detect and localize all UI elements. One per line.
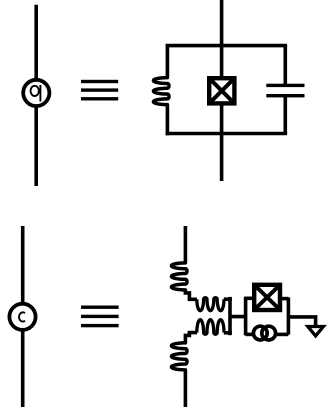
wire bottom lead	[184, 371, 188, 407]
wire right branch lower	[283, 96, 287, 134]
wire crossbar	[229, 315, 246, 319]
wire step L2 to L3	[185, 291, 197, 300]
node q	[23, 80, 49, 106]
wire L3 to junction bar	[224, 297, 232, 301]
wire to ground	[288, 317, 315, 327]
wire L4 to junction bar	[224, 331, 232, 335]
ground	[308, 327, 324, 336]
wire bottom lead	[220, 104, 224, 181]
coupler twin-circle element	[253, 326, 275, 340]
inductor L3	[197, 298, 224, 311]
inductor L2	[171, 262, 187, 291]
wire right branch upper	[283, 46, 287, 86]
wire top branch right stub	[280, 297, 288, 301]
wire top lead	[220, 0, 224, 78]
wire top lead	[184, 226, 188, 262]
inductor L4	[197, 320, 224, 335]
wire top branch left stub	[246, 296, 255, 300]
wire bottom branch right stub	[277, 333, 289, 337]
wire step L4 down to L5	[185, 333, 197, 343]
wire left node bar	[244, 297, 248, 336]
equivalence symbol	[81, 80, 118, 101]
wire q lead	[34, 5, 38, 186]
wire bottom rail	[166, 132, 288, 136]
Josephson junction J1	[209, 78, 234, 103]
inductor L5	[171, 342, 187, 371]
equivalence symbol	[81, 306, 119, 328]
wire left branch upper	[166, 46, 170, 77]
wire c lead	[21, 226, 25, 407]
wire left branch lower	[166, 106, 170, 135]
wire right node bar	[287, 297, 291, 334]
wire junction bar	[228, 297, 232, 335]
node c	[9, 304, 35, 330]
inductor L1	[153, 76, 169, 106]
Josephson junction J2	[254, 285, 280, 310]
capacitor C1	[266, 84, 304, 98]
wire top rail	[166, 44, 288, 48]
wire bottom branch left stub	[246, 333, 254, 337]
